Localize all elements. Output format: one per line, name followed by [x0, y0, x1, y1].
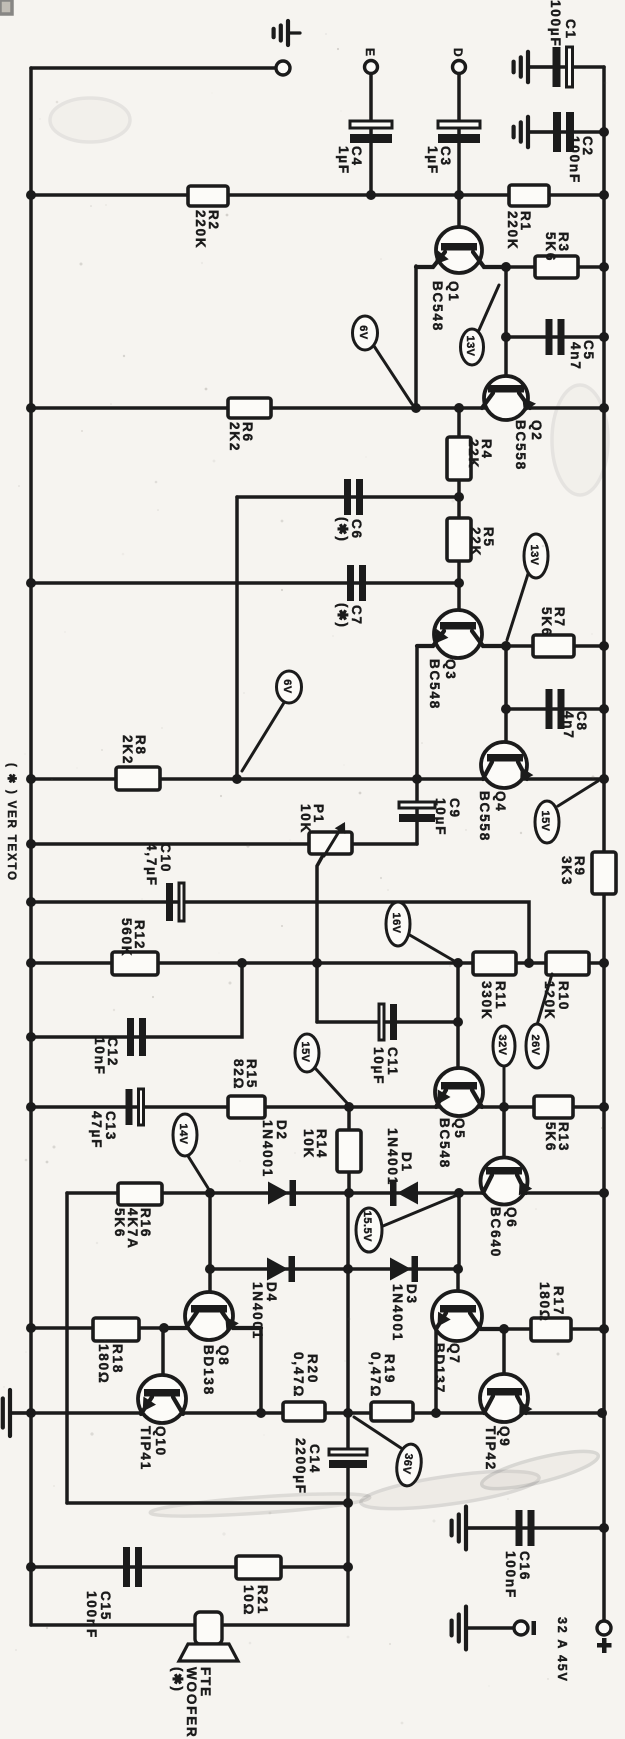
node P1-left rail	[26, 839, 36, 849]
callout 14V at R16 node	[173, 1114, 208, 1188]
svg-text:Q1: Q1	[446, 281, 461, 303]
svg-text:R19: R19	[382, 1354, 397, 1384]
diode D1 1N4001	[385, 1128, 418, 1206]
node C5-collector	[501, 332, 511, 342]
svg-text:16V: 16V	[390, 912, 402, 933]
callout 15V at R14 node	[295, 1034, 347, 1103]
resistor R6 2K2	[227, 398, 271, 452]
svg-text:(✱): (✱)	[170, 1667, 185, 1693]
svg-text:1N4001: 1N4001	[250, 1282, 265, 1340]
capacitor C11 10uF	[371, 1004, 400, 1085]
svg-text:R10: R10	[556, 981, 571, 1011]
node gnd-output bus	[26, 1408, 36, 1418]
transistor Q2 BC558	[482, 376, 544, 471]
wire left ground rail	[29, 68, 33, 1625]
resistor R17 180	[531, 1282, 571, 1341]
wire diode bias bus lower	[210, 1267, 457, 1271]
capacitor C2 100nF	[553, 112, 595, 184]
wire Q6 base column	[502, 1107, 506, 1167]
transistor Q1 BC548	[416, 227, 506, 332]
svg-text:0,47Ω: 0,47Ω	[368, 1352, 383, 1398]
svg-text:(✱): (✱)	[335, 517, 350, 543]
svg-text:C13: C13	[103, 1111, 118, 1141]
wire Q1 collector column	[504, 266, 508, 385]
node R10-rail	[599, 958, 609, 968]
svg-text:15.5V: 15.5V	[361, 1211, 373, 1242]
svg-text:Q8: Q8	[216, 1345, 231, 1367]
resistor R21 10	[236, 1556, 281, 1616]
callout 36V at output	[354, 1417, 424, 1487]
wire right supply rail upper	[602, 67, 606, 852]
capacitor C3 1uF	[425, 121, 480, 175]
svg-text:2200µF: 2200µF	[293, 1438, 308, 1495]
svg-text:BD138: BD138	[201, 1345, 216, 1396]
svg-text:5K6: 5K6	[543, 1122, 558, 1152]
wire C7 branch	[31, 581, 459, 585]
wire Q1 emitter column	[414, 266, 418, 408]
capacitor C15 100nF	[84, 1547, 142, 1639]
node R4 top	[454, 403, 464, 413]
svg-text:100µF: 100µF	[548, 0, 563, 48]
transistor Q4 BC558	[477, 742, 533, 842]
node C8-rail	[599, 704, 609, 714]
node C11-Q5 base	[453, 1017, 463, 1027]
svg-text:Q5: Q5	[452, 1118, 467, 1140]
svg-text:TIP42: TIP42	[483, 1426, 498, 1471]
wire C16 branch	[468, 1526, 604, 1530]
svg-text:5K6: 5K6	[112, 1208, 127, 1238]
capacitor C10 4.7uF	[144, 843, 184, 921]
wire bottom speaker wire	[31, 1623, 348, 1627]
capacitor C5 4n7	[546, 319, 597, 371]
capacitor C7	[335, 565, 366, 629]
resistor R16 4K7-5K6	[112, 1183, 162, 1250]
svg-text:C11: C11	[385, 1047, 400, 1076]
wire C2 to rail	[530, 130, 604, 134]
node R16-D2	[205, 1188, 215, 1198]
terminal D input	[451, 48, 466, 74]
svg-text:R18: R18	[110, 1344, 125, 1374]
wire R4-R5 column	[457, 408, 461, 622]
svg-text:2K2: 2K2	[120, 735, 135, 765]
wire output column upper	[346, 1193, 350, 1448]
wire feedback column	[65, 1193, 69, 1503]
node C6 col-R8	[232, 774, 242, 784]
callout 13V at Q3	[507, 534, 548, 640]
resistor R19 0R47	[368, 1352, 413, 1421]
resistor R18 180	[93, 1318, 139, 1385]
svg-text:R17: R17	[551, 1286, 566, 1316]
resistor R5 22K	[447, 518, 496, 561]
wire output column lower	[346, 1467, 350, 1625]
node R7-collector	[501, 641, 511, 651]
node R12-C12	[237, 958, 247, 968]
node C8-collector	[501, 704, 511, 714]
wire R6 feedback bus	[31, 406, 604, 410]
wire feedback to output	[67, 1501, 348, 1505]
node Q8 em-output bus	[256, 1408, 266, 1418]
wire right supply rail lower	[602, 894, 606, 1621]
capacitor C12 10nF	[92, 1018, 146, 1076]
node Q5 coll-Q6 base	[499, 1102, 509, 1112]
terminal E input	[363, 48, 378, 74]
svg-text:BC548: BC548	[437, 1118, 452, 1169]
capacitor C16 100nF	[503, 1510, 535, 1599]
svg-text:C10: C10	[158, 843, 173, 873]
svg-text:13V: 13V	[528, 544, 540, 565]
wire Q3 emitter column	[415, 646, 419, 779]
node C7-left rail	[26, 578, 36, 588]
node Q6 emitter-rail	[599, 1188, 609, 1198]
svg-text:Q2: Q2	[529, 420, 544, 442]
wire Q5 base column	[456, 963, 460, 1082]
callout 26V at R11-R10	[526, 974, 552, 1068]
callout 6V at C6 node	[242, 671, 302, 771]
node R18-left rail	[26, 1323, 36, 1333]
svg-text:BC548: BC548	[430, 281, 445, 332]
capacitor C9 10uF	[399, 798, 462, 836]
node Q9 emitter-rail	[597, 1408, 607, 1418]
label supply voltage	[555, 1617, 569, 1683]
wire base bias bus	[31, 193, 604, 197]
node output node	[343, 1408, 353, 1418]
capacitor C14 2200uF	[293, 1438, 367, 1495]
wire Q7 base column	[456, 1269, 460, 1305]
svg-text:180Ω: 180Ω	[537, 1282, 552, 1323]
svg-text:10nF: 10nF	[92, 1037, 107, 1076]
svg-text:Q6: Q6	[504, 1207, 519, 1229]
svg-text:E: E	[363, 48, 377, 58]
wire input D column / Q1 base	[457, 74, 461, 243]
svg-text:BC548: BC548	[427, 659, 442, 710]
node D4-output col	[343, 1264, 353, 1274]
node C16-rail	[599, 1523, 609, 1533]
svg-text:R20: R20	[305, 1354, 320, 1384]
capacitor C13 47uF	[89, 1089, 144, 1149]
svg-text:6V: 6V	[281, 679, 293, 694]
svg-text:1N4001: 1N4001	[260, 1120, 275, 1178]
svg-text:100nF: 100nF	[567, 136, 582, 184]
node Q7 coll-Q9 base	[499, 1324, 509, 1334]
callout 15.5V at Q6 collector	[356, 1196, 455, 1252]
wire input ground lead	[31, 66, 276, 70]
svg-text:R11: R11	[493, 981, 508, 1010]
svg-text:C15: C15	[98, 1591, 113, 1621]
resistor R14 10K	[301, 1129, 361, 1172]
resistor R3 5K6	[535, 232, 578, 278]
node feedback-output col	[343, 1498, 353, 1508]
wire C10 branch	[31, 902, 529, 963]
svg-text:C1: C1	[563, 19, 578, 40]
resistor R2 220K	[188, 186, 228, 249]
svg-text:C6: C6	[349, 519, 364, 540]
wire C6 column	[235, 497, 239, 779]
node R6 bus left	[26, 403, 36, 413]
wire P1 wiper column	[317, 857, 322, 1022]
svg-text:D4: D4	[264, 1282, 279, 1303]
resistor R8 2K2	[116, 735, 160, 790]
wire input E column	[369, 74, 373, 195]
callout 15V at Q4 emitter	[535, 781, 598, 843]
svg-text:Q4: Q4	[493, 791, 508, 813]
transistor Q10 TIP41	[138, 1375, 186, 1471]
ground left rail	[0, 1390, 31, 1436]
potentiometer P1 10K	[298, 804, 352, 856]
svg-text:(✱): (✱)	[335, 603, 350, 629]
svg-text:1µF: 1µF	[425, 146, 440, 175]
resistor R12 560K	[112, 918, 158, 975]
wire R14 column	[347, 1107, 351, 1193]
ground input jack	[274, 21, 300, 45]
resistor R1 220K	[505, 185, 549, 250]
node R6 bus right	[599, 403, 609, 413]
svg-text:26V: 26V	[529, 1034, 541, 1055]
wire zobel branch	[31, 1565, 348, 1569]
svg-text:13V: 13V	[464, 335, 476, 356]
node D4 left	[205, 1264, 215, 1274]
node R12-left rail	[26, 958, 36, 968]
wire C11 branch	[317, 1020, 458, 1024]
svg-text:4,7µF: 4,7µF	[144, 843, 159, 887]
svg-text:180Ω: 180Ω	[96, 1344, 111, 1385]
wire output bus	[10, 1411, 604, 1415]
node bus-right rail	[599, 190, 609, 200]
wire C1 to rail	[530, 65, 604, 69]
node C7-Q3 base	[454, 578, 464, 588]
wire C12 branch	[31, 963, 242, 1037]
svg-text:4n7: 4n7	[561, 711, 576, 740]
svg-text:Q10: Q10	[153, 1426, 168, 1457]
wire C9 column	[415, 779, 419, 844]
capacitor C6	[335, 479, 364, 543]
svg-text:10K: 10K	[298, 804, 313, 834]
svg-text:0,47Ω: 0,47Ω	[291, 1352, 306, 1398]
node R13-rail	[599, 1102, 609, 1112]
transistor Q5 BC548	[435, 1068, 483, 1169]
svg-text:32 A 45V: 32 A 45V	[555, 1617, 569, 1683]
wire P1 left lead	[31, 842, 309, 846]
svg-text:FTE: FTE	[198, 1667, 213, 1698]
wire C9 to P1	[352, 842, 417, 846]
node Q3 emitter-R8	[412, 774, 422, 784]
svg-text:R21: R21	[255, 1585, 270, 1615]
transistor Q3 BC548	[417, 610, 506, 710]
note ver texto	[5, 763, 17, 882]
svg-text:10µF: 10µF	[433, 798, 448, 836]
node bus-left rail	[26, 190, 36, 200]
transistor Q9 TIP42	[480, 1374, 532, 1471]
svg-text:C9: C9	[447, 798, 462, 819]
wire R12-R11-R10 bus	[31, 961, 604, 965]
svg-text:220K: 220K	[193, 210, 208, 249]
node C6-R4R5	[454, 492, 464, 502]
node R3-collector	[501, 262, 511, 272]
node Q5 base-bus	[453, 958, 463, 968]
svg-text:1N4001: 1N4001	[390, 1284, 405, 1342]
svg-text:( ✱ ) VER TEXTO: ( ✱ ) VER TEXTO	[5, 763, 17, 882]
wire R8 bus	[31, 777, 604, 781]
speaker FTE woofer	[170, 1612, 238, 1739]
svg-text:BC558: BC558	[513, 420, 528, 471]
wire bias column left	[208, 1193, 212, 1305]
node R18-Q8-Q10	[159, 1323, 169, 1333]
callout 16V at bias divider	[386, 902, 456, 962]
transistor Q6 BC640	[481, 1158, 533, 1259]
wire C6 branch	[237, 495, 459, 499]
svg-text:22K: 22K	[468, 527, 483, 557]
node D2-R14	[344, 1188, 354, 1198]
svg-text:D: D	[451, 48, 465, 58]
node Q1 emitter	[411, 403, 421, 413]
resistor R11 330K	[473, 952, 516, 1020]
ground C2	[514, 117, 553, 147]
callout 6V at Q1	[353, 316, 413, 404]
wire Q7-R17 branch	[481, 1327, 604, 1331]
node C13-left rail	[26, 1102, 36, 1112]
ground C1	[514, 52, 552, 82]
terminal plus supply	[597, 1621, 612, 1653]
wire negative terminal lead	[468, 1626, 514, 1630]
svg-text:10Ω: 10Ω	[241, 1585, 256, 1616]
svg-text:100nF: 100nF	[503, 1551, 518, 1599]
transistor Q7 BD137	[432, 1291, 504, 1394]
node zobel-output col	[343, 1562, 353, 1572]
node D1-Q6 coll	[454, 1188, 464, 1198]
resistor R4 22K	[447, 437, 494, 480]
svg-text:330K: 330K	[479, 981, 494, 1020]
svg-text:2K2: 2K2	[227, 422, 242, 452]
node C12-left rail	[26, 1032, 36, 1042]
svg-text:47µF: 47µF	[89, 1111, 104, 1149]
terminal input jack	[276, 61, 290, 75]
resistor R9 3K3	[559, 852, 616, 894]
wire diode bias bus upper	[67, 1191, 604, 1195]
node R11-R10	[524, 958, 534, 968]
resistor R7 5K6	[533, 607, 574, 657]
svg-text:15V: 15V	[299, 1041, 311, 1062]
terminal minus supply	[514, 1621, 536, 1635]
diode D4 1N4001	[250, 1256, 295, 1340]
svg-text:5K6: 5K6	[539, 607, 554, 637]
svg-text:D3: D3	[404, 1284, 419, 1305]
node R17-rail	[599, 1324, 609, 1334]
wire Q9 base column	[502, 1329, 506, 1388]
svg-text:Q7: Q7	[447, 1343, 462, 1365]
wire Q8 emitter column	[259, 1328, 263, 1413]
svg-text:BD137: BD137	[432, 1343, 447, 1394]
wire Q3 collector column	[504, 646, 508, 754]
svg-text:220K: 220K	[505, 211, 520, 250]
node D3-Q7 base	[453, 1264, 463, 1274]
svg-text:BC640: BC640	[488, 1207, 503, 1258]
svg-text:6V: 6V	[357, 325, 369, 340]
svg-text:Q3: Q3	[443, 659, 458, 681]
svg-text:100nF: 100nF	[84, 1591, 99, 1639]
svg-text:5K6: 5K6	[543, 232, 558, 262]
svg-text:D2: D2	[274, 1120, 289, 1141]
svg-text:14V: 14V	[177, 1123, 189, 1144]
wire D1-D3 interbias column	[457, 1193, 461, 1269]
node R3-rail	[599, 262, 609, 272]
resistor R13 5K6	[534, 1096, 573, 1152]
node R8-left rail	[26, 774, 36, 784]
callout 32V at Q5 collector	[493, 1026, 515, 1104]
svg-text:1N4001: 1N4001	[385, 1128, 400, 1186]
svg-text:82Ω: 82Ω	[231, 1059, 246, 1090]
resistor R10 120K	[542, 952, 589, 1020]
svg-text:22K: 22K	[466, 439, 481, 469]
diode D2 1N4001	[260, 1120, 296, 1206]
node zobel-left rail	[26, 1562, 36, 1572]
svg-text:15V: 15V	[539, 810, 551, 831]
wire Q10 base column	[161, 1328, 165, 1389]
node R14 top	[344, 1102, 354, 1112]
resistor R15 82	[228, 1059, 265, 1118]
svg-text:10K: 10K	[301, 1129, 316, 1159]
wire Q7 emitter column	[434, 1327, 438, 1413]
node C2-rail junction	[599, 127, 609, 137]
node C5-rail	[599, 332, 609, 342]
ground negative terminal	[452, 1607, 468, 1650]
wire C13-R15 bus	[31, 1105, 604, 1109]
wire C8 branch	[506, 707, 604, 711]
capacitor C1 100uF	[548, 0, 578, 87]
svg-text:TIP41: TIP41	[138, 1426, 153, 1471]
transistor Q8 BD138	[164, 1292, 261, 1396]
wire R18 branch	[31, 1326, 164, 1330]
svg-text:C7: C7	[349, 605, 364, 626]
wire R7 branch	[506, 644, 604, 648]
svg-text:BC558: BC558	[477, 791, 492, 842]
node E column	[366, 190, 376, 200]
svg-text:D1: D1	[399, 1152, 414, 1173]
capacitor C4 1uF	[336, 121, 392, 175]
ground C16	[452, 1507, 513, 1550]
node C10-left rail	[26, 897, 36, 907]
diode D3 1N4001	[390, 1256, 419, 1342]
node Q7 em-output bus	[431, 1408, 441, 1418]
svg-text:Q9: Q9	[497, 1426, 512, 1448]
svg-text:4n7: 4n7	[568, 342, 583, 371]
svg-text:3K3: 3K3	[559, 856, 574, 886]
capacitor C8 4n7	[546, 689, 590, 740]
wire C5 branch	[506, 335, 604, 339]
svg-text:560K: 560K	[119, 918, 134, 957]
svg-text:10µF: 10µF	[371, 1047, 386, 1085]
node R7-rail	[599, 641, 609, 651]
callout 13V at Q1 collector	[461, 285, 500, 365]
node P1 wiper-bus	[312, 958, 322, 968]
svg-text:WOOFER: WOOFER	[184, 1667, 199, 1739]
wire R3 branch	[506, 265, 604, 269]
svg-text:C16: C16	[517, 1551, 532, 1581]
svg-text:32V: 32V	[496, 1034, 508, 1055]
svg-text:1µF: 1µF	[336, 146, 351, 175]
resistor R20 0R47	[283, 1352, 325, 1421]
svg-text:C14: C14	[307, 1444, 322, 1474]
node Q1 base	[454, 190, 464, 200]
node Q4 emitter-rail	[599, 774, 609, 784]
